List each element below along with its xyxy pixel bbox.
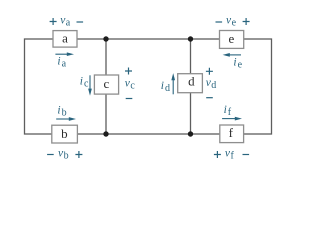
svg-text:vb: vb [58, 147, 69, 161]
svg-text:f: f [229, 125, 234, 140]
svg-text:vf: vf [225, 148, 235, 162]
svg-text:ic: ic [80, 76, 89, 90]
svg-text:id: id [161, 80, 170, 94]
svg-text:va: va [60, 15, 71, 29]
svg-text:vd: vd [206, 77, 217, 91]
svg-text:c: c [104, 76, 110, 91]
svg-text:e: e [229, 31, 235, 46]
svg-text:d: d [188, 74, 195, 89]
svg-text:ve: ve [226, 15, 237, 29]
svg-text:ib: ib [57, 105, 66, 119]
svg-text:ia: ia [57, 55, 66, 69]
svg-text:if: if [224, 104, 232, 118]
svg-text:a: a [62, 31, 68, 46]
svg-text:b: b [61, 126, 68, 141]
svg-text:vc: vc [125, 78, 136, 92]
svg-text:ie: ie [233, 56, 242, 70]
